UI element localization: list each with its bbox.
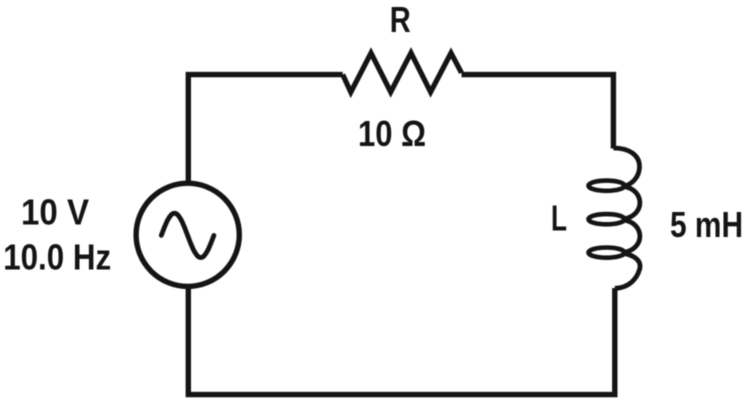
svg-text:10 Ω: 10 Ω — [358, 113, 426, 154]
wire: top-left loop (left vertical above source + top wire to resistor) — [188, 75, 342, 185]
inductor L coil bump C — [625, 220, 640, 252]
svg-text:10.0 Hz: 10.0 Hz — [3, 237, 111, 278]
inductor L coil bump B — [625, 187, 640, 219]
inductor L loop 2 — [589, 214, 625, 224]
inductor L loop 3 — [589, 248, 625, 258]
AC source V1 circle — [136, 183, 239, 286]
resistor R1 zigzag — [343, 53, 462, 92]
svg-text:L: L — [551, 198, 567, 239]
inductor L coil bump D (bottom) — [615, 254, 640, 289]
AC source sine wave — [161, 213, 214, 257]
wire: inductor bottom, bottom wire, left vertical up to source — [188, 285, 615, 395]
svg-text:R: R — [390, 0, 411, 40]
svg-text:10 V: 10 V — [21, 191, 89, 232]
inductor L loop 1 — [589, 181, 625, 191]
svg-text:5 mH: 5 mH — [670, 204, 743, 245]
inductor L coil bump A (top) — [613, 148, 639, 186]
wire: resistor to top-right corner and down to inductor top — [462, 75, 614, 149]
